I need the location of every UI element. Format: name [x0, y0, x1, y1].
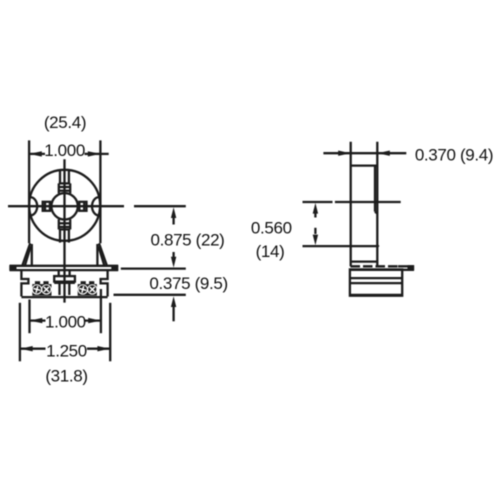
bottom inner extension lines	[28, 300, 30, 334]
right terminal screw heads	[81, 281, 86, 284]
side view body bottom inner line	[351, 260, 378, 262]
right spring clip	[97, 243, 107, 266]
bottom slot box	[59, 219, 70, 229]
front view outer circle	[29, 170, 100, 241]
base outline front	[21, 270, 107, 296]
left side notch	[30, 197, 37, 215]
dimension 0.875 arrows	[171, 207, 176, 267]
svg-text:1.000: 1.000	[44, 141, 85, 160]
side view latch detail	[377, 243, 379, 249]
mounting flange plate front	[9, 265, 118, 270]
dimension line 1.000 bottom	[30, 318, 101, 323]
pedestal wide box	[54, 276, 75, 282]
svg-text:(25.4): (25.4)	[44, 113, 86, 132]
side view mounting plate	[350, 265, 414, 270]
svg-text:(31.8): (31.8)	[45, 366, 87, 385]
left contact tab	[43, 202, 50, 211]
center hole	[51, 193, 77, 219]
top slot box	[59, 183, 70, 193]
reference line 0.875 bottom / 0.375 top	[121, 267, 186, 269]
left terminal screw heads	[35, 281, 40, 284]
side view base block	[350, 269, 402, 295]
side view right wall	[376, 142, 378, 267]
reference line 0.375 bottom	[114, 294, 186, 296]
right contact tab	[79, 202, 86, 211]
svg-text:0.375 (9.5): 0.375 (9.5)	[149, 274, 227, 293]
side view centerline	[303, 201, 333, 203]
left terminal block	[32, 284, 51, 296]
horizontal centerline front view	[8, 205, 124, 207]
svg-text:1.000: 1.000	[45, 312, 86, 331]
base bottom edge	[21, 296, 107, 298]
screw 1	[32, 284, 42, 294]
top slot	[59, 170, 61, 183]
bottom outer extension lines	[19, 303, 21, 362]
svg-text:(14): (14)	[256, 242, 285, 261]
left spring clip	[22, 243, 32, 266]
svg-text:0.875 (22): 0.875 (22)	[151, 231, 225, 250]
screw 2	[41, 284, 51, 294]
svg-text:1.250: 1.250	[46, 342, 87, 361]
vertical centerline front view	[63, 159, 65, 302]
screw 4	[87, 284, 97, 294]
center pedestal stem	[58, 270, 60, 276]
right side notch	[92, 197, 99, 215]
side view inner wall	[374, 166, 376, 212]
dimension 0.375 bottom arrow	[171, 296, 176, 321]
dimension line 1.250	[20, 346, 110, 351]
side view top face	[351, 164, 378, 166]
side view left wall	[350, 142, 352, 267]
dimension line 1.000 top	[29, 151, 109, 156]
pedestal column	[58, 283, 60, 295]
side view lamp stop line	[303, 245, 378, 247]
screw 3	[78, 284, 88, 294]
svg-text:0.370 (9.4): 0.370 (9.4)	[415, 145, 493, 164]
bottom slot	[59, 229, 61, 242]
extension line right of 1.000 top	[99, 140, 101, 243]
right terminal block	[78, 284, 97, 296]
dimension 0.560 arrows	[313, 203, 318, 245]
dimension line 0.370	[323, 151, 406, 156]
extension line left of 1.000 top	[28, 140, 30, 243]
svg-text:0.560: 0.560	[251, 218, 292, 237]
